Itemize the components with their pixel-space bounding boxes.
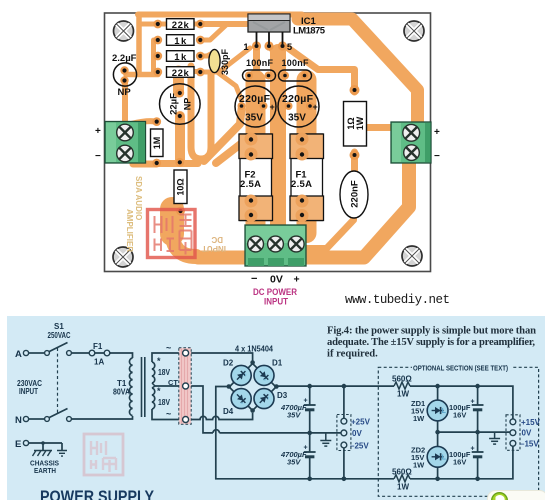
- capacitor 2.2uF NP: [112, 53, 137, 98]
- svg-text:+: +: [471, 446, 475, 453]
- pads C 2.2uF: [120, 66, 128, 74]
- bridge diamond wires: [229, 364, 276, 411]
- op-amp IC1 LM1875 package: [243, 14, 325, 53]
- wire top 4700uF cap leads: [309, 386, 311, 433]
- svg-text:E: E: [15, 439, 21, 450]
- svg-text:SDA AUDIO: SDA AUDIO: [134, 176, 143, 220]
- pads 100nF: [245, 72, 253, 80]
- wire fuse to primary top: [111, 353, 133, 358]
- svg-text:−: −: [95, 151, 101, 162]
- junction dots: [41, 360, 480, 481]
- wire 10ohm to bottom rail curve: [160, 209, 184, 234]
- svg-text:INPUT: INPUT: [19, 387, 38, 396]
- svg-text:18V: 18V: [158, 398, 171, 407]
- svg-text:1k: 1k: [174, 52, 187, 63]
- wire N line to switch: [29, 418, 45, 420]
- wire switch to fuse: [72, 352, 89, 354]
- svg-text:Fig.4: the power supply is sim: Fig.4: the power supply is simple but mo…: [327, 326, 536, 337]
- svg-text:560Ω: 560Ω: [392, 468, 412, 477]
- svg-text:35V: 35V: [287, 411, 301, 420]
- svg-text:*: *: [157, 356, 161, 366]
- svg-text:16V: 16V: [453, 458, 466, 467]
- wire 330pF bottom diagonal: [215, 70, 242, 100]
- pads 220uF: [238, 102, 246, 110]
- svg-text:OPTIONAL SECTION (SEE TEXT): OPTIONAL SECTION (SEE TEXT): [413, 364, 509, 373]
- capacitor 220uF 35V (left): [235, 86, 276, 127]
- wire top rail: [138, 12, 302, 18]
- svg-text:LM1875: LM1875: [293, 26, 326, 37]
- svg-text:+: +: [95, 126, 101, 137]
- pads: [120, 20, 359, 217]
- screw hole top-right: [404, 21, 424, 41]
- wire block bottom to 1M bottom: [133, 161, 156, 168]
- fuse F1 holder: [290, 133, 324, 223]
- wire ZD2 leads: [437, 468, 439, 479]
- wire E chassis line: [29, 443, 63, 450]
- fuse F1 1A: [88, 342, 111, 367]
- pads 1ohm: [350, 85, 360, 95]
- svg-text:NP: NP: [182, 98, 192, 111]
- wire IC to 1ohm resistor top: [288, 48, 355, 92]
- zener ZD2: [427, 446, 448, 467]
- svg-text:5: 5: [287, 42, 293, 53]
- wire ZD1 leads: [437, 386, 439, 446]
- wire 1ohm bottom to 220nF top: [351, 152, 358, 176]
- svg-text:1A: 1A: [94, 358, 104, 367]
- svg-text:~: ~: [166, 409, 171, 419]
- label 230VAC INPUT: [17, 379, 42, 396]
- svg-text:+: +: [471, 399, 475, 406]
- pads resistors right column: [196, 20, 205, 29]
- svg-text:35V: 35V: [288, 113, 306, 124]
- PCB edge connector (3-way): [166, 343, 191, 424]
- label CHASSIS EARTH: [30, 459, 59, 476]
- svg-text:–25V: –25V: [350, 442, 369, 451]
- svg-text:250VAC: 250VAC: [48, 331, 71, 340]
- svg-text:100nF: 100nF: [282, 58, 310, 68]
- svg-text:2.2µF: 2.2µF: [112, 53, 137, 64]
- wire 22uF bottom to 10ohm: [175, 116, 185, 162]
- screw hole top-left: [114, 21, 134, 41]
- pad holes: [156, 22, 160, 26]
- svg-text:+: +: [270, 102, 275, 112]
- resistor 1ohm 1W: [344, 102, 367, 147]
- diode D4: [231, 389, 251, 409]
- svg-text:DC: DC: [211, 235, 223, 244]
- svg-text:1W: 1W: [397, 390, 409, 399]
- terminal block DC input: [245, 225, 306, 266]
- wire second rail to IC: [200, 21, 247, 27]
- wire central 0V bar: [270, 52, 286, 238]
- fuse F2 holder: [239, 133, 273, 223]
- wire outer chevron to output +: [298, 19, 418, 122]
- pads C 22uF: [175, 89, 184, 98]
- svg-text:100nF: 100nF: [246, 58, 274, 68]
- terminal A: [15, 349, 29, 360]
- terminal N: [15, 415, 29, 426]
- svg-text:220nF: 220nF: [350, 180, 361, 208]
- svg-text:–15V: –15V: [520, 440, 539, 449]
- wire +V rail right of resistor: [410, 386, 513, 419]
- wire 2.2uF bottom to block: [122, 80, 128, 128]
- wire pin5 to 100nF2: [279, 48, 286, 70]
- wire optional 0V rail: [438, 431, 510, 433]
- capacitor 22uF NP: [160, 84, 201, 125]
- wire AC bottom: connector to bridge bottom node (with hops): [189, 413, 253, 420]
- svg-text:D3: D3: [277, 391, 288, 400]
- terminal block left (speaker): [95, 122, 146, 164]
- label ZD1 15V 1W: [411, 399, 425, 423]
- resistor 560ohm 1W (bottom): [392, 468, 412, 492]
- label DC POWER INPUT: [253, 287, 297, 308]
- ground symbol (optional 0V): [489, 432, 500, 444]
- pads 1M: [152, 117, 161, 126]
- switch mechanical dashed link: [57, 348, 59, 413]
- wire r3 right to 330pF: [200, 52, 214, 56]
- svg-text:35V: 35V: [245, 113, 263, 124]
- wire +25V tap: [343, 386, 345, 418]
- wire top 100uF leads: [477, 386, 479, 432]
- svg-text:80VA: 80VA: [113, 388, 130, 397]
- wire left feed bus: [136, 15, 142, 73]
- wire secondary bottom to connector: [152, 409, 183, 420]
- svg-text:S1: S1: [54, 322, 64, 331]
- wire minus from bridge left node down to -V rail: [216, 387, 310, 479]
- resistor R 22k (top): [167, 19, 195, 31]
- resistor R 22k (fourth): [167, 67, 195, 79]
- wire diagonal to cap1 pad: [204, 109, 242, 161]
- svg-text:CT: CT: [168, 378, 178, 387]
- terminal E: [15, 439, 29, 450]
- wire 22k1 stub: [139, 22, 157, 27]
- resistor 10ohm: [174, 170, 187, 204]
- silkscreen text SDA AUDIO (side, rotated 180): [125, 176, 143, 252]
- svg-text:+: +: [313, 102, 318, 112]
- wire r2 right diagonal: [200, 25, 226, 40]
- capacitor 100nF (left): [243, 58, 276, 81]
- label ZD2 15V 1W: [411, 446, 425, 470]
- core: [142, 357, 145, 417]
- capacitor 4700uF 35V (top): [280, 398, 316, 420]
- svg-text:adequate. The ±15V supply is f: adequate. The ±15V supply is for a pream…: [327, 337, 535, 348]
- svg-text:2.5A: 2.5A: [291, 179, 312, 190]
- red seal stamp (PCB): [148, 210, 196, 258]
- svg-text:www.tubediy.net: www.tubediy.net: [345, 293, 450, 307]
- primary winding: [129, 358, 132, 416]
- svg-text:L: L: [442, 454, 447, 461]
- wire r4 right diagonal to pin1: [200, 48, 250, 72]
- wire output plus to 1ohm net: [355, 128, 391, 141]
- wire CT to connector: [155, 385, 183, 387]
- wire bottom 100uF leads: [477, 432, 479, 479]
- svg-text:22k: 22k: [172, 68, 190, 79]
- diode D2: [231, 365, 251, 385]
- red seal stamp (schematic): [84, 434, 123, 475]
- wire -V rail continues: [310, 478, 394, 480]
- svg-text:*: *: [157, 386, 161, 396]
- optional section dashed box: [378, 363, 538, 497]
- capacitor 220uF 35V (right): [278, 86, 319, 127]
- svg-text:10Ω: 10Ω: [175, 178, 185, 195]
- svg-text:2.5A: 2.5A: [240, 179, 261, 190]
- caption Fig.4: [327, 326, 536, 360]
- capacitor 220nF: [340, 171, 368, 218]
- svg-text:D1: D1: [272, 359, 283, 368]
- schematic blue background: [7, 316, 545, 500]
- svg-text:+: +: [304, 445, 308, 452]
- connector 25V output: [337, 415, 371, 451]
- wire A line to switch: [29, 352, 45, 354]
- svg-text:if required.: if required.: [327, 349, 378, 360]
- svg-text:330pF: 330pF: [220, 48, 230, 75]
- wire 1M bottom to 10ohm horizontal: [157, 160, 198, 167]
- wire -V rail right of resistor: [410, 446, 513, 479]
- wire r1 right diagonal: [158, 22, 200, 27]
- messenger icon bottom-right (partial): [488, 491, 545, 500]
- svg-text:AMPLIFIER: AMPLIFIER: [125, 209, 134, 252]
- CT lead: [152, 383, 155, 388]
- svg-text:1W: 1W: [397, 483, 409, 492]
- svg-text:N: N: [15, 415, 22, 426]
- capacitor 100uF 16V (bottom): [449, 446, 484, 467]
- resistor 1M: [151, 129, 164, 157]
- resistor R 1k (second): [167, 35, 195, 47]
- svg-text:+: +: [294, 274, 300, 286]
- wire secondary top to connector: [152, 353, 183, 362]
- pads 10ohm: [175, 158, 184, 167]
- svg-text:22µF: 22µF: [169, 93, 180, 115]
- svg-text:0V: 0V: [352, 429, 362, 438]
- svg-text:1W: 1W: [355, 116, 365, 130]
- svg-text:−: −: [251, 273, 257, 285]
- svg-text:~: ~: [166, 343, 171, 353]
- svg-text:D4: D4: [223, 407, 234, 416]
- svg-text:220µF: 220µF: [282, 93, 314, 105]
- svg-text:INPUT: INPUT: [264, 297, 288, 308]
- capacitor 100uF 16V (top): [449, 399, 484, 420]
- svg-text:22k: 22k: [172, 20, 190, 31]
- diode D1: [254, 365, 274, 385]
- connector 15V output: [506, 415, 541, 451]
- diode D3: [254, 389, 274, 409]
- svg-text:INPUT: INPUT: [202, 244, 226, 253]
- svg-text:4 x 1N5404: 4 x 1N5404: [235, 345, 273, 354]
- svg-text:EARTH: EARTH: [34, 466, 56, 475]
- pads IC1: [252, 41, 261, 50]
- wire AC top: connector to bridge top node: [189, 353, 253, 361]
- pads resistors left column: [153, 20, 162, 29]
- secondary winding bottom 18V: [152, 388, 155, 409]
- wire F1 vertical bar: [297, 80, 317, 233]
- svg-text:560Ω: 560Ω: [392, 375, 412, 384]
- svg-text:1: 1: [243, 42, 249, 53]
- svg-text:POWER SUPPLY: POWER SUPPLY: [40, 487, 155, 500]
- switch S1: [45, 322, 72, 421]
- pads 220nF: [350, 171, 357, 178]
- wire pin1 to 100nF1: [253, 48, 260, 70]
- svg-text:+25V: +25V: [351, 418, 371, 427]
- wire 2.2uF top pad link: [126, 72, 158, 78]
- svg-text:1M: 1M: [152, 137, 162, 150]
- wire output minus ring: block bottom, diagonal, bottom rail: [198, 152, 409, 258]
- svg-text:0V: 0V: [522, 429, 532, 438]
- wire switch N to primary bottom: [72, 416, 133, 419]
- svg-text:35V: 35V: [287, 458, 301, 467]
- svg-text:+: +: [304, 398, 308, 405]
- screw hole bottom-left: [113, 247, 133, 267]
- wire bottom 4700uF cap leads: [309, 433, 311, 479]
- svg-text:−: −: [434, 151, 440, 162]
- svg-text:+: +: [434, 127, 440, 138]
- screw hole bottom-right: [402, 246, 422, 266]
- transformer T1 80VA: [113, 356, 178, 417]
- svg-text:0V: 0V: [270, 274, 283, 286]
- chassis earth symbol: [33, 451, 68, 457]
- wire 1k pads bus: [151, 40, 156, 72]
- svg-text:16V: 16V: [453, 411, 466, 420]
- wire CT to 0V rail: [186, 386, 344, 433]
- capacitor 330pF: [209, 48, 230, 75]
- svg-text:L: L: [442, 408, 447, 415]
- wire block to 1M top: [131, 121, 155, 124]
- silkscreen text DC INPUT (rotated 180): [202, 235, 226, 253]
- wire inner chevron 220nF to DC plus: [303, 212, 354, 249]
- label - 0V + under DC block: [251, 273, 300, 286]
- svg-text:A: A: [15, 349, 22, 360]
- svg-text:1k: 1k: [174, 36, 187, 47]
- terminal block right (output): [391, 122, 440, 163]
- resistor 560ohm 1W (top): [392, 375, 412, 399]
- wire F2 vertical bar: [246, 80, 266, 233]
- capacitor 100nF (right): [279, 58, 312, 81]
- svg-text:1W: 1W: [413, 461, 425, 470]
- secondary winding top 18V: [152, 362, 155, 383]
- capacitor 4700uF 35V (bottom): [280, 445, 316, 467]
- svg-text:1W: 1W: [413, 414, 425, 423]
- wire +V rail from bridge right node: [276, 385, 394, 387]
- wire 22k2 right pad link: [178, 69, 200, 74]
- wire 22uF top band: [173, 71, 184, 92]
- resistor R 1k (third): [167, 51, 195, 63]
- ground symbol (main 0V): [320, 433, 331, 446]
- svg-text:D2: D2: [223, 359, 234, 368]
- svg-text:F1: F1: [93, 342, 103, 351]
- zener ZD1: [427, 400, 448, 421]
- svg-text:18V: 18V: [158, 368, 171, 377]
- PCB board outline: [105, 13, 431, 272]
- wire -25V tap: [343, 448, 345, 479]
- svg-text:NP: NP: [118, 87, 132, 98]
- pin legs: [257, 32, 283, 44]
- svg-text:220µF: 220µF: [239, 93, 271, 105]
- wire pin3 stub: [269, 46, 276, 54]
- wire diagonal to F2 top pad: [216, 136, 251, 163]
- wire hairpin U: [191, 66, 211, 159]
- svg-text:+15V: +15V: [521, 418, 541, 427]
